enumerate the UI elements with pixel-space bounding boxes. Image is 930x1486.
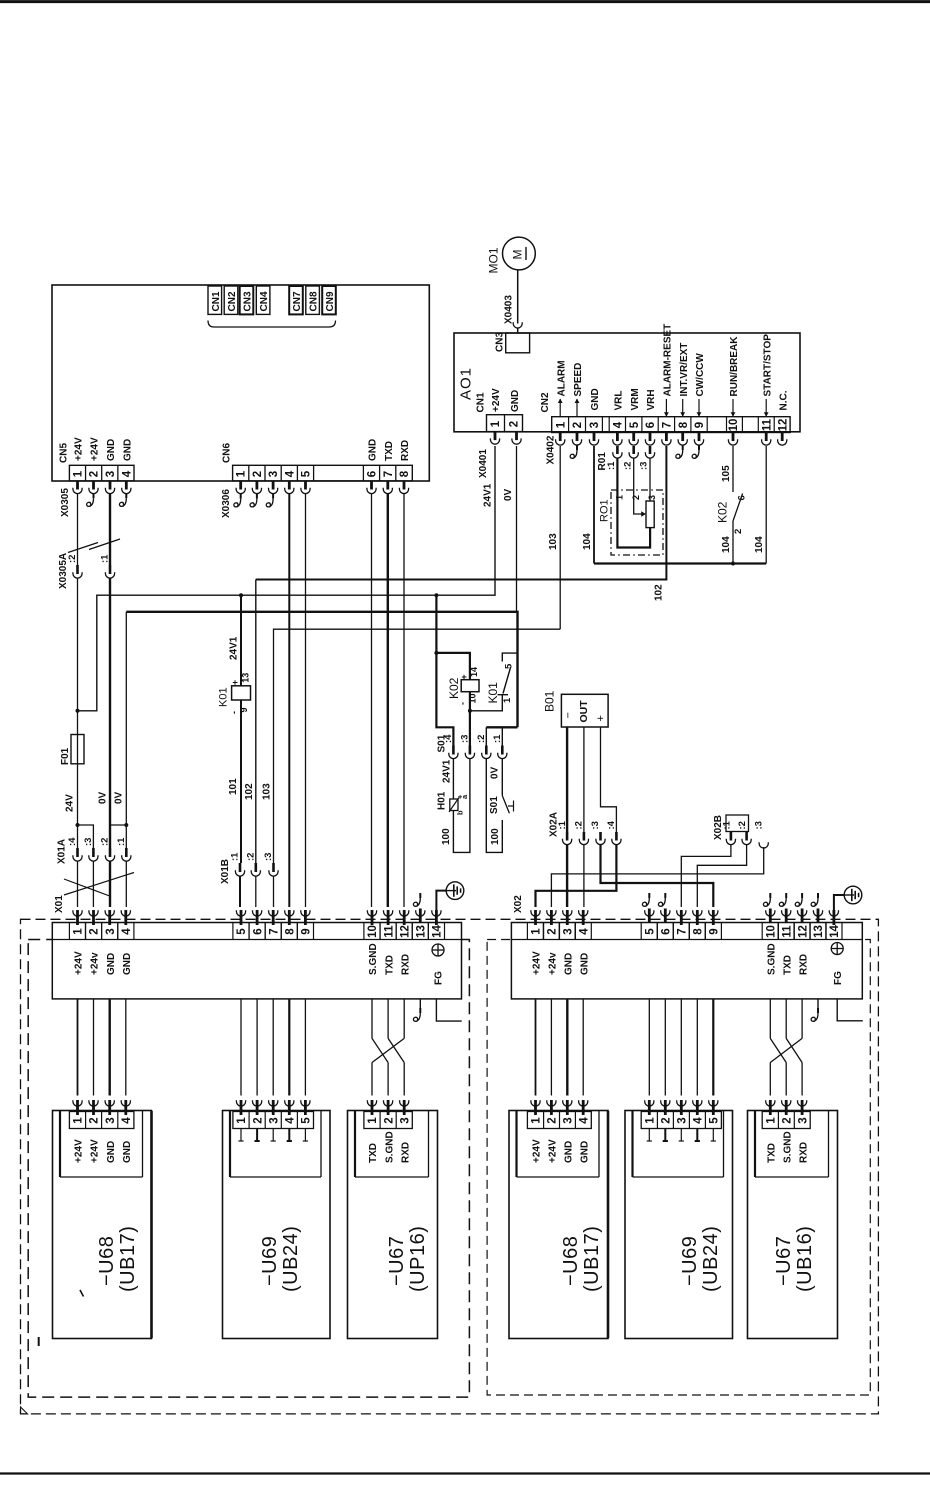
module &#8722;U69 pin stubs (648, 1129, 650, 1142)
FG wire below X01 (436, 999, 461, 1021)
svg-text:TXD: TXD (782, 955, 793, 975)
svg-text:-: - (458, 702, 468, 705)
svg-text:3: 3 (563, 1117, 575, 1123)
wire motor to CN3 (X0403) (517, 270, 519, 324)
connector CN2 (224, 286, 238, 314)
svg-text:2: 2 (383, 1117, 395, 1123)
svg-text::1: :1 (721, 820, 732, 829)
wire X01-14 to protective earth (436, 891, 446, 911)
X01 strip pins (73, 910, 82, 916)
svg-text::3: :3 (263, 853, 274, 861)
svg-text:11: 11 (761, 418, 773, 431)
connector CN4 (256, 286, 270, 314)
svg-text:4: 4 (693, 1117, 705, 1124)
svg-text:4: 4 (121, 928, 133, 935)
svg-text::3: :3 (460, 735, 471, 743)
svg-text:GND: GND (564, 1141, 575, 1163)
svg-text:1: 1 (502, 697, 513, 703)
svg-text:ALARM-RESET: ALARM-RESET (663, 324, 674, 397)
svg-text:START/STOP: START/STOP (762, 334, 773, 397)
svg-text::1: :1 (606, 461, 617, 470)
svg-text:+24V: +24V (90, 437, 101, 461)
svg-text:2: 2 (89, 928, 101, 934)
connector X0306 socket pins (239, 481, 242, 490)
wire 102 down to X01B:2 (255, 580, 257, 864)
wires X02 to U69 right (648, 999, 650, 1096)
wire K01 contact 1 to K02 coil node (470, 695, 502, 711)
svg-text:S.GND: S.GND (368, 943, 379, 975)
svg-text:H01: H01 (437, 791, 448, 810)
svg-text:9: 9 (301, 928, 313, 934)
svg-text:CN7: CN7 (292, 291, 303, 311)
outer dashed enclosure (21, 919, 879, 1414)
module &#8722;U69 pin stubs (240, 1129, 242, 1142)
CN2 signal labels (559, 399, 561, 417)
svg-text:11: 11 (781, 925, 793, 938)
svg-text:+24V: +24V (74, 1139, 85, 1163)
svg-text:2: 2 (631, 495, 641, 500)
svg-text:1: 1 (615, 495, 625, 500)
wire B01 minus to X02A:1 (thick) (566, 727, 568, 832)
svg-text::2: :2 (476, 735, 487, 743)
wire X02B:2 to X02 pin8 (697, 844, 746, 907)
svg-text:0V: 0V (490, 766, 501, 779)
svg-text::2: :2 (737, 821, 748, 829)
svg-text:RO1: RO1 (599, 499, 611, 522)
connector X0401 socket pins (494, 432, 497, 441)
open socket X02B:3 (759, 842, 768, 848)
module &#8722;U67 (UP16) box (348, 1111, 438, 1339)
svg-text::4: :4 (443, 734, 454, 743)
wire 102 CN2-7 down and left (256, 446, 667, 580)
svg-text::2: :2 (67, 555, 78, 563)
unconnected stub X01-13 above (419, 893, 421, 898)
svg-text:12: 12 (777, 419, 789, 432)
connector X0402 socket pins (559, 433, 562, 442)
svg-text:104: 104 (582, 533, 593, 550)
inner dashed enclosure left (28, 940, 469, 1398)
unconnected stub CN5-4 (125, 493, 127, 498)
svg-text:B01: B01 (543, 690, 557, 712)
svg-text:+: + (230, 680, 240, 685)
connector X02B pins :1 :2 :3 (726, 815, 749, 832)
svg-text:13: 13 (241, 673, 251, 683)
protective earth symbol right (844, 886, 862, 904)
svg-text:−U68: −U68 (96, 1236, 118, 1286)
svg-text:CN2: CN2 (227, 291, 238, 311)
svg-text:RXD: RXD (798, 1142, 809, 1163)
svg-text:+: + (595, 715, 607, 721)
connector CN5 (69, 465, 134, 481)
svg-text:13: 13 (416, 925, 428, 938)
svg-text:0V: 0V (97, 791, 108, 804)
wire 103 CN2-1 down (559, 446, 561, 629)
unconnected stubs X02 pins 5 6 10 11 12 13 (648, 893, 650, 898)
FG wire below X02 (837, 999, 863, 1021)
relay coil K01 (239, 593, 243, 597)
svg-text:2: 2 (661, 1117, 673, 1123)
svg-text:1: 1 (236, 470, 248, 477)
svg-text:0V: 0V (503, 488, 514, 501)
svg-text:S.GND: S.GND (782, 1131, 793, 1163)
potentiometer RO1 resistor (646, 501, 654, 528)
svg-text:K01: K01 (218, 687, 230, 707)
svg-text::3: :3 (83, 838, 94, 846)
svg-text::2: :2 (246, 853, 257, 861)
X02 frame ground symbol (831, 943, 843, 955)
svg-text:1: 1 (531, 928, 543, 935)
svg-text:8: 8 (693, 928, 705, 935)
connector CN3 (240, 286, 254, 314)
svg-text::1: :1 (100, 554, 111, 563)
wire B01 OUT to X02A:2 (583, 727, 585, 832)
wire CN5-1 to X0305A:2 (77, 494, 79, 565)
svg-text:9: 9 (694, 422, 706, 428)
svg-text:3: 3 (797, 1117, 809, 1123)
svg-text:GND: GND (510, 390, 521, 412)
svg-text:GND: GND (122, 953, 133, 975)
unconnected stub CN6-1 (240, 494, 242, 499)
svg-text:5: 5 (645, 928, 657, 935)
terminal strip X01 (52, 923, 461, 999)
svg-text:+24V: +24V (74, 951, 85, 975)
svg-text:1: 1 (236, 1117, 248, 1124)
svg-text:X0306: X0306 (221, 489, 232, 518)
svg-text:2: 2 (252, 1117, 264, 1123)
wire 0V rail to S01 (486, 726, 517, 728)
wire 24V1 S01:4 to H01 (452, 758, 454, 799)
TXD RXD crossover left (371, 999, 373, 1039)
wire X02A:3 to X02 pin9 (thick) (601, 844, 714, 907)
module U68 right thick right edge (607, 1111, 610, 1338)
svg-text:GND: GND (590, 388, 601, 410)
module &#8722;U67 connector cells (364, 1112, 412, 1129)
relay coil K02 feed (434, 593, 438, 597)
svg-text:GND: GND (106, 953, 117, 975)
svg-text:1: 1 (73, 1117, 85, 1124)
svg-text:GND: GND (106, 1141, 117, 1163)
svg-text:(UB17): (UB17) (581, 1226, 603, 1292)
relay coil K02 (461, 680, 479, 692)
svg-text:GND: GND (368, 439, 379, 461)
svg-text:CN1: CN1 (211, 291, 222, 311)
svg-text:−U69: −U69 (679, 1236, 701, 1286)
svg-text:+24V: +24V (74, 437, 85, 461)
svg-text:X0401: X0401 (478, 449, 489, 478)
svg-text:GND: GND (122, 1141, 133, 1163)
wires X01 to U68 (77, 999, 79, 1096)
stray tick near U68 (80, 1290, 84, 1297)
unconnected stub X02-13 below strip (817, 999, 819, 1008)
wire CN2-11 down to 104 rail (765, 446, 767, 564)
svg-text:S.GND: S.GND (767, 943, 778, 975)
svg-text:2: 2 (509, 421, 521, 427)
svg-text:2: 2 (252, 471, 264, 477)
svg-text:3: 3 (105, 1117, 117, 1123)
wire CN6-4 to X01 pin8 (288, 494, 290, 907)
svg-text:GND: GND (564, 953, 575, 975)
svg-text:4: 4 (285, 1117, 297, 1124)
svg-text::4: :4 (67, 837, 78, 846)
connector CN8 (306, 286, 320, 314)
connector CN7 (289, 286, 303, 314)
svg-text:24V1: 24V1 (441, 759, 452, 783)
wire CN2-5 to pot wiper (634, 458, 643, 514)
svg-text:1: 1 (766, 1117, 778, 1124)
svg-text:0V: 0V (114, 791, 125, 804)
connector X01B pins :1 :2 :3 (239, 863, 242, 872)
svg-text:CN2: CN2 (540, 392, 551, 412)
wire S01 switch loop to S01:2 (486, 758, 502, 852)
wire CN6-6 GND to X01 pin10 (371, 494, 373, 907)
svg-text:13: 13 (813, 925, 825, 938)
svg-text:+24v: +24v (548, 952, 559, 975)
module &#8722;U67 pins (766, 1100, 775, 1106)
protective earth symbol left (446, 882, 464, 900)
svg-text:105: 105 (721, 465, 732, 482)
unconnected stub CN2-8 (682, 445, 684, 450)
svg-text:4: 4 (578, 1117, 590, 1124)
unconnected stub CN5-2 (93, 493, 95, 498)
svg-text:M: M (511, 250, 525, 260)
svg-text:b: b (456, 810, 465, 815)
svg-text:6: 6 (645, 422, 657, 428)
svg-text:K01: K01 (486, 682, 500, 704)
unconnected stub CN2-9 (698, 445, 700, 450)
module U68 left thick right edge (150, 1111, 153, 1338)
svg-text:3: 3 (399, 1117, 411, 1123)
svg-text:3: 3 (589, 422, 601, 428)
module &#8722;U67 (UB16) box (748, 1111, 838, 1339)
connector X0305 socket pins (76, 481, 79, 490)
svg-text:100: 100 (490, 828, 501, 845)
wire X02A:1 to X02 pin3 (thick) (566, 844, 568, 907)
svg-text:CN4: CN4 (259, 291, 270, 311)
svg-text:−U67: −U67 (773, 1236, 795, 1286)
svg-text:14: 14 (469, 667, 479, 677)
svg-text:24V: 24V (65, 794, 76, 812)
connector CN6 (233, 465, 413, 481)
wire CN2-4 to pot bottom (thick) (617, 458, 650, 548)
svg-text:1: 1 (73, 470, 85, 477)
svg-text::4: :4 (606, 820, 617, 829)
connector X0305A pins :2 :1 (76, 565, 79, 574)
wire CN6-8 RXD to X01 pin12 (403, 494, 405, 907)
wire CN5-3 to X0305A:1 (thick) (109, 494, 111, 565)
svg-text:2: 2 (547, 928, 559, 934)
svg-text:8: 8 (678, 421, 690, 428)
module &#8722;U68 (UB17) box (53, 1111, 152, 1339)
module &#8722;U67 pins (367, 1100, 376, 1106)
svg-text:CN3: CN3 (495, 332, 506, 352)
wire 0V down to X01A:1 (125, 612, 127, 848)
brace under CN1-CN9 (208, 321, 336, 328)
svg-text:INT.VR/EXT: INT.VR/EXT (679, 343, 690, 397)
svg-text:102: 102 (654, 584, 665, 601)
X02 strip pins (531, 910, 540, 916)
wire X02B:1 to X02 pin7 (681, 844, 731, 907)
connector CN1 (208, 286, 222, 314)
svg-text:1: 1 (555, 421, 567, 428)
battery B01 (561, 694, 608, 727)
wires X01 to U69 (240, 999, 242, 1096)
svg-text:24V1: 24V1 (483, 483, 494, 507)
unconnected stub X01-13 below strip (419, 999, 421, 1008)
svg-text:10: 10 (766, 925, 778, 938)
module &#8722;U69 (UB24) box (223, 1111, 331, 1339)
svg-text:1: 1 (490, 420, 502, 427)
svg-text:5: 5 (504, 663, 515, 669)
svg-text:7: 7 (662, 422, 674, 428)
svg-text:102: 102 (244, 783, 255, 800)
svg-text:4: 4 (578, 928, 590, 935)
svg-text:5: 5 (301, 1117, 313, 1124)
svg-text:103: 103 (262, 783, 273, 800)
connector CN1 on A01 (487, 415, 523, 432)
svg-text:RXD: RXD (400, 954, 411, 975)
connector X02A pins :1 :2 :3 :4 (566, 832, 569, 841)
svg-text::1: :1 (557, 820, 568, 829)
svg-text:MO1: MO1 (487, 247, 501, 273)
wire 24V X0305A:2 down to fuse (77, 578, 79, 735)
svg-text:X01: X01 (54, 895, 65, 913)
module &#8722;U69 pins (645, 1100, 654, 1106)
module &#8722;U69 (UB24) box (625, 1111, 733, 1339)
svg-text:24V1: 24V1 (229, 636, 240, 660)
svg-text:TXD: TXD (384, 955, 395, 975)
svg-text::3: :3 (590, 821, 601, 829)
module &#8722;U67 connector cells (762, 1112, 810, 1129)
module &#8722;U68 (UB17) box (509, 1111, 608, 1339)
svg-text:VRL: VRL (614, 391, 625, 411)
main control unit box (52, 285, 429, 481)
svg-text:2: 2 (733, 529, 744, 534)
svg-text::2: :2 (100, 838, 111, 846)
svg-text:5: 5 (709, 1117, 721, 1124)
svg-text:3: 3 (563, 928, 575, 934)
svg-text:9: 9 (709, 928, 721, 934)
svg-text:K02: K02 (716, 501, 730, 523)
svg-text:TXD: TXD (384, 441, 395, 461)
svg-text:6: 6 (661, 928, 673, 934)
svg-text:RUN/BREAK: RUN/BREAK (729, 336, 740, 397)
svg-text:1: 1 (367, 1117, 379, 1124)
svg-text:SPEED: SPEED (573, 363, 584, 397)
svg-text:2: 2 (572, 422, 584, 428)
wire X02A:4 to X02 pin1 (thick) (536, 844, 617, 907)
svg-text:X0402: X0402 (546, 435, 557, 464)
connector CN2 on A01 (552, 417, 790, 433)
svg-text::2: :2 (622, 462, 633, 470)
unconnected stub CN6-3 (272, 494, 274, 499)
svg-text:GND: GND (579, 953, 590, 975)
svg-text:X0403: X0403 (504, 295, 515, 324)
svg-text:-: - (229, 711, 239, 714)
svg-text:3: 3 (105, 928, 117, 934)
svg-text:−U69: −U69 (259, 1236, 281, 1286)
svg-text:X01B: X01B (220, 859, 231, 884)
svg-text:2: 2 (547, 1117, 559, 1123)
driver unit A01 box (454, 333, 800, 432)
svg-text:+24V: +24V (90, 1139, 101, 1163)
svg-text:CN5: CN5 (59, 443, 70, 463)
svg-text:2: 2 (89, 1117, 101, 1123)
svg-text:RXD: RXD (400, 1142, 411, 1163)
wire B01 plus to X02A:4 (601, 727, 617, 832)
svg-text:(UP16): (UP16) (407, 1226, 429, 1292)
svg-text:5: 5 (236, 928, 248, 935)
wires X01A to X01 pins 1-4 (77, 861, 79, 907)
svg-text:X02: X02 (513, 895, 524, 913)
svg-text:CN1: CN1 (476, 392, 487, 412)
svg-text:8: 8 (399, 470, 411, 477)
svg-text:GND: GND (106, 439, 117, 461)
svg-text:S01: S01 (489, 796, 500, 814)
wire 0V S01:1 to switch (501, 758, 503, 795)
wire 101 K01 coil to X01B:1 (240, 700, 242, 863)
svg-text:S.GND: S.GND (384, 1131, 395, 1163)
svg-text:11: 11 (383, 925, 395, 938)
svg-text:CN3: CN3 (243, 291, 254, 311)
wire CN2-6 to pot top (649, 458, 651, 501)
svg-text:(UB24): (UB24) (280, 1226, 302, 1292)
svg-text:(UB24): (UB24) (700, 1226, 722, 1292)
svg-text:FG: FG (434, 971, 445, 985)
motor M01 (503, 237, 536, 270)
svg-text::1: :1 (492, 734, 503, 743)
svg-text:GND: GND (123, 439, 134, 461)
svg-text:4: 4 (121, 470, 133, 477)
svg-text:+24V: +24V (532, 951, 543, 975)
svg-text:RXD: RXD (798, 954, 809, 975)
svg-text:10: 10 (728, 419, 740, 432)
svg-text:VRH: VRH (646, 389, 657, 410)
svg-text:104: 104 (721, 536, 732, 553)
relay contact K01 (502, 653, 517, 661)
svg-text:103: 103 (548, 533, 559, 550)
svg-text:TXD: TXD (368, 1143, 379, 1163)
svg-text::2: :2 (574, 821, 585, 829)
svg-text:CN9: CN9 (325, 291, 336, 311)
svg-text::3: :3 (639, 462, 650, 470)
wire 104 CN2-3 down (593, 446, 595, 564)
svg-text:5: 5 (629, 421, 641, 428)
svg-text::3: :3 (754, 821, 765, 829)
wire H01 loop to S01:3 (453, 758, 470, 852)
svg-text:6: 6 (737, 495, 748, 500)
wire K02 coil to junction (469, 692, 471, 746)
svg-text:7: 7 (677, 928, 689, 934)
svg-text:+24V: +24V (491, 388, 502, 412)
svg-text:14: 14 (432, 925, 444, 938)
svg-text:3: 3 (647, 495, 657, 500)
svg-text:1: 1 (531, 1117, 543, 1124)
svg-text:(UB16): (UB16) (794, 1226, 816, 1292)
wire 104 horizontal rail (594, 562, 766, 564)
terminal strip X02 (511, 923, 862, 999)
svg-text:12: 12 (399, 925, 411, 938)
svg-text:+24v: +24v (90, 952, 101, 975)
svg-text:GND: GND (579, 1141, 590, 1163)
svg-text:VRM: VRM (630, 388, 641, 410)
svg-text:4: 4 (121, 1117, 133, 1124)
svg-text:14: 14 (829, 925, 841, 938)
wire 0V rail horizontal (thick) (126, 612, 517, 728)
wires X01B to X01 pins 5-7 (239, 876, 241, 907)
svg-text:F01: F01 (60, 747, 71, 765)
svg-text:−: − (563, 712, 575, 718)
svg-text::1: :1 (116, 837, 127, 846)
